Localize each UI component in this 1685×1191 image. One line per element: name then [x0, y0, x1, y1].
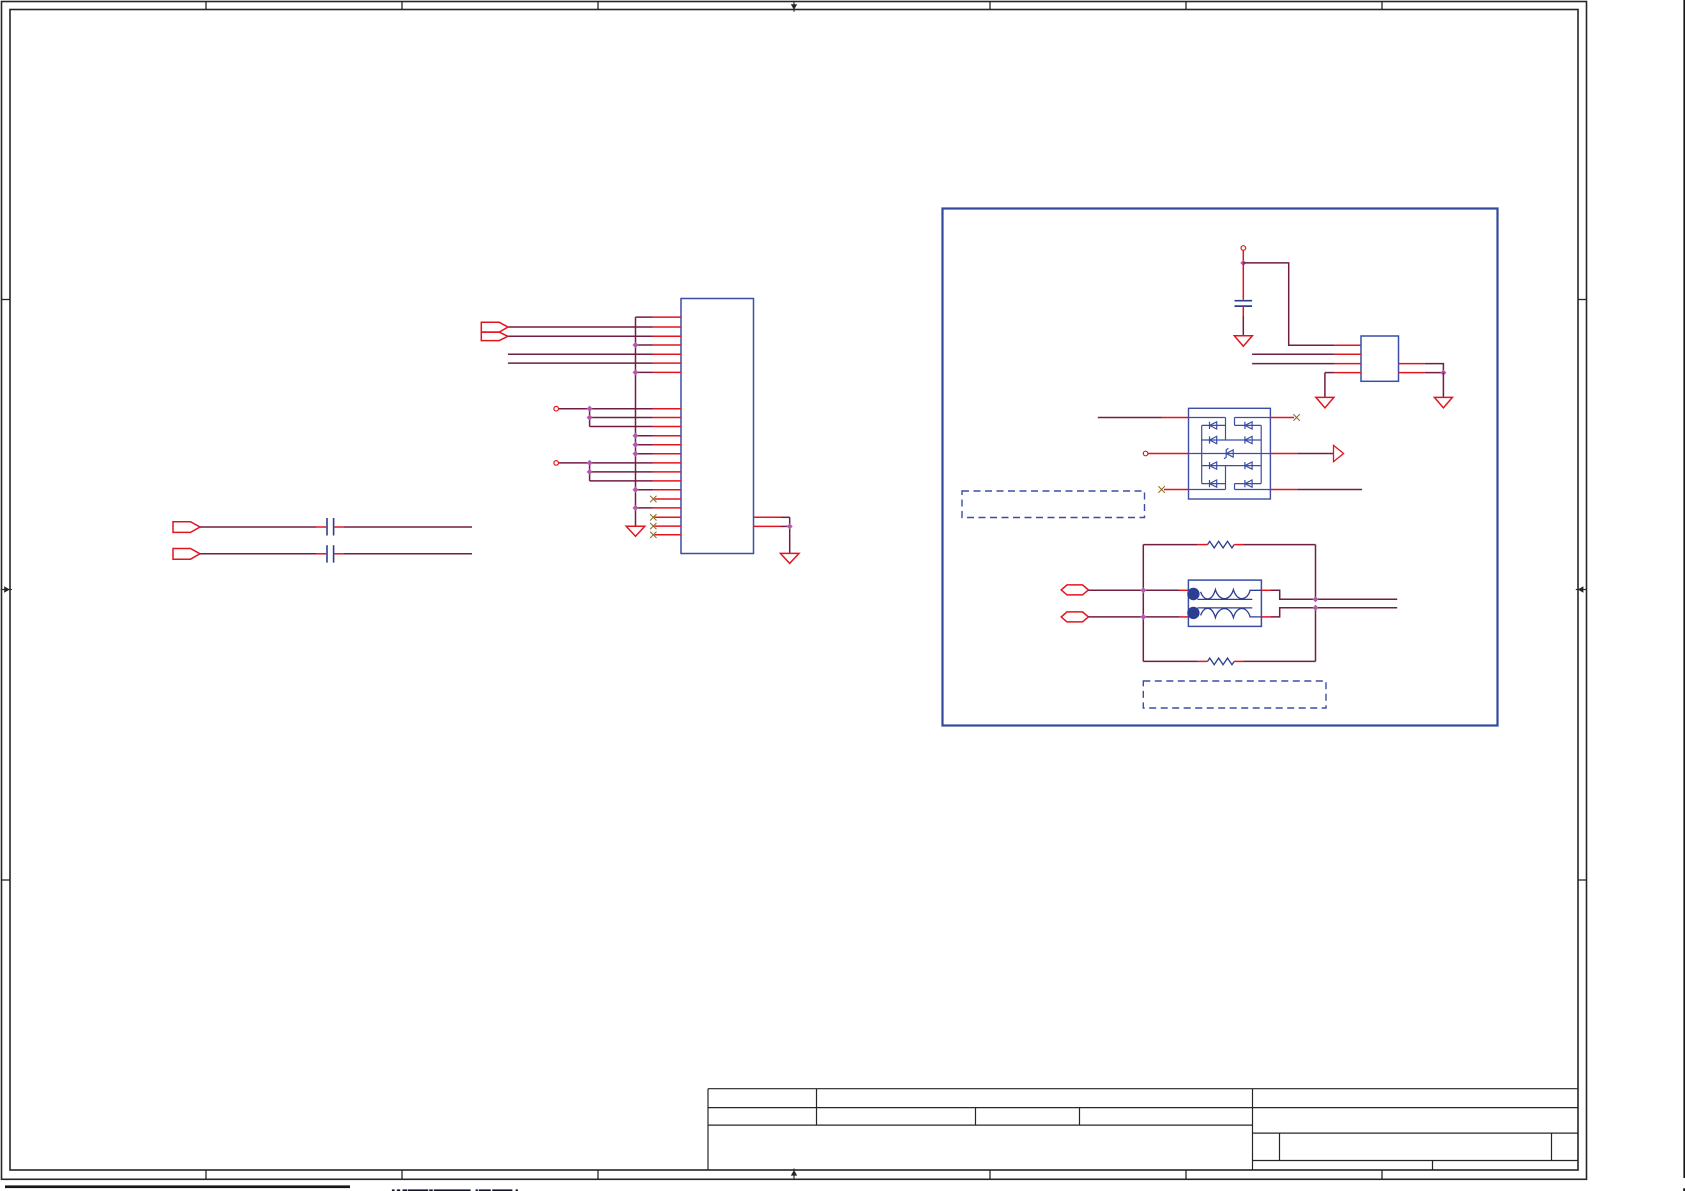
junction: [1141, 614, 1146, 619]
wire bus to J1 pin 13: [636, 453, 653, 455]
wire D1 pin 4: [1270, 489, 1362, 491]
wire D1 pin 3: [1164, 489, 1189, 491]
no-connect X J1 pin: [650, 514, 656, 520]
wire left branch vertical: [1142, 545, 1144, 662]
wire T1 out bottom: [1261, 608, 1397, 617]
wire node B to J1 pin 15: [590, 471, 653, 473]
diode (D1 cell): [1210, 480, 1217, 487]
wire U1 pin 3: [1252, 363, 1361, 365]
junction: [633, 370, 638, 375]
junction: [1313, 605, 1318, 610]
wire bus to J1 pin 1: [636, 316, 653, 318]
junction: [587, 469, 592, 474]
junction: [587, 460, 592, 465]
wire bus to J1 pin 17: [636, 489, 653, 491]
junction: [633, 505, 638, 510]
ground (U1 left): [1316, 397, 1334, 408]
wire J1 right pin 23: [754, 516, 790, 518]
port P6 flag: [1061, 612, 1088, 622]
wire bus to J1 pin 4: [636, 344, 653, 346]
wire node A to J1 pin 9: [590, 417, 653, 419]
wire D1 pin 5 to port arrow: [1270, 453, 1333, 455]
wire node A to J1 pin 10: [590, 426, 653, 428]
ESD diode array D1 body: [1189, 408, 1271, 499]
diode (D1 cell): [1245, 422, 1252, 429]
wire U1 pin 2: [1252, 353, 1361, 355]
wire node A to J1 pin 8: [559, 408, 653, 410]
junction: [587, 406, 592, 411]
no-connect circle node B: [554, 461, 559, 466]
wire R2 to right branch: [1234, 608, 1315, 662]
capacitor C2: [327, 545, 334, 562]
wire bus to J1 pin 11: [636, 435, 653, 437]
port P5 flag: [1061, 585, 1088, 595]
transformer T1 windings and polarity dots: [1187, 588, 1261, 619]
TVS zener (D1 center): [1224, 448, 1233, 459]
wire node B branch: [589, 463, 591, 481]
resistor R2: [1208, 658, 1235, 665]
junction: [587, 415, 592, 420]
wire right pins to ground: [789, 517, 791, 553]
port P4 flag: [173, 549, 200, 560]
J1 left pin stubs: [653, 317, 682, 535]
resistor R1: [1208, 541, 1235, 548]
no-connect X J1 pin: [650, 523, 656, 529]
ground (C3): [1234, 336, 1252, 347]
no-connect X D1 pin 3: [1158, 486, 1164, 492]
wire to ground (U1 right): [1442, 373, 1444, 398]
diode (D1 cell): [1210, 436, 1217, 443]
no-connect X D1 pin 6: [1293, 414, 1299, 420]
wire P3 to C1: [200, 526, 326, 528]
wire bus to J1 pin 12: [636, 444, 653, 446]
junction: [633, 451, 638, 456]
wire U1 pin 5: [1399, 372, 1444, 374]
no-connect circle node A: [554, 406, 559, 411]
wire D1 pin 6: [1270, 417, 1294, 419]
wire bus to J1 pin 19: [636, 507, 653, 509]
wire P1 to J1 pin 2: [508, 326, 653, 328]
power port circle: [1241, 246, 1246, 251]
wire T1 out top: [1261, 590, 1397, 599]
wire to J1 pin 6: [508, 362, 653, 364]
ground (J1 right): [780, 553, 799, 563]
no-connect X J1 pin: [650, 532, 656, 538]
ground (bus): [626, 526, 645, 536]
diode (D1 cell): [1245, 462, 1252, 469]
wire C2 right: [334, 553, 472, 555]
wire R1 to right branch: [1234, 545, 1315, 600]
wire node B to J1 pin 16: [590, 480, 653, 482]
diode (D1 cell): [1245, 436, 1252, 443]
diode (D1 cell): [1210, 462, 1217, 469]
wire U1 pin 6: [1399, 364, 1444, 373]
capacitor C3: [1235, 263, 1253, 336]
wire P4 to C2: [200, 553, 326, 555]
wire node A branch: [589, 409, 591, 427]
wire power to U1 pin 1: [1243, 263, 1361, 345]
junction: [633, 342, 638, 347]
schematic group outline box: [943, 209, 1498, 726]
wire power to junction: [1242, 250, 1244, 263]
junction: [633, 487, 638, 492]
wire J1 right pin 24: [754, 525, 790, 527]
port P2 flag: [481, 332, 508, 341]
wire bottom to R2: [1143, 660, 1207, 662]
port arrow flag: [1334, 445, 1344, 461]
junction: [1241, 260, 1246, 265]
junction: [633, 442, 638, 447]
diode (D1 cell): [1210, 422, 1217, 429]
no-connect X J1 pin: [650, 496, 656, 502]
junction: [1441, 370, 1446, 375]
wire U1 pin 4 to ground: [1325, 373, 1361, 398]
junction: [1313, 597, 1318, 602]
wire top to R1: [1143, 544, 1207, 546]
no-connect circle D1 pin 2: [1143, 451, 1148, 456]
wire P6 to T1: [1088, 616, 1188, 618]
port P3 flag: [173, 522, 200, 533]
D1 internal wiring: [1189, 418, 1271, 490]
connector J1 body: [681, 299, 754, 554]
dashed designator box 1: [962, 491, 1145, 518]
wire P2 to J1 pin 3: [508, 335, 653, 337]
IC U1 body: [1361, 336, 1399, 381]
dashed designator box 2: [1143, 681, 1326, 708]
wire node B to J1 pin 14: [559, 462, 653, 464]
junction: [1141, 588, 1146, 593]
capacitor C1: [327, 518, 334, 536]
wire to J1 pin 5: [508, 353, 653, 355]
wire C1 right: [334, 526, 472, 528]
ground (U1 right): [1434, 397, 1452, 408]
junction: [787, 524, 792, 529]
transformer T1 body: [1188, 580, 1261, 626]
junction: [633, 433, 638, 438]
wire P5 to T1: [1088, 589, 1188, 591]
diode (D1 cell): [1245, 480, 1252, 487]
wire bus to J1 pin 7: [636, 371, 653, 373]
vertical bus wire: [635, 317, 637, 526]
port P1 flag: [481, 322, 508, 332]
wire to D1 pin 1: [1098, 417, 1189, 419]
wire D1 pin 2: [1148, 453, 1189, 455]
